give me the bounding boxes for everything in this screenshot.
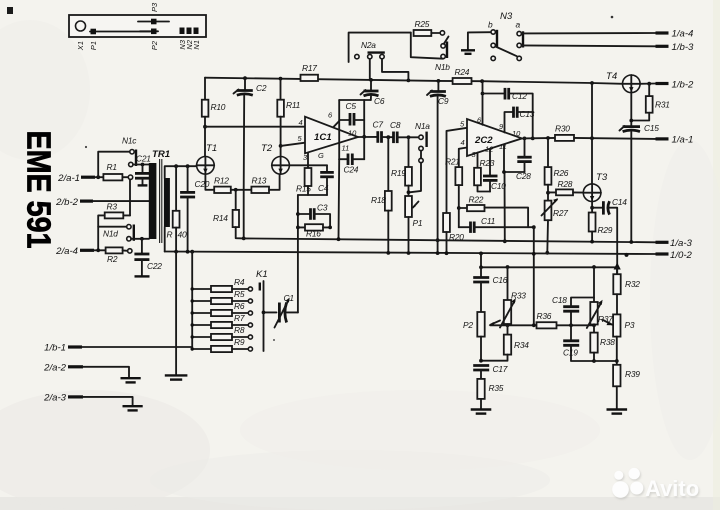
svg-text:b: b [488, 20, 493, 30]
node R40 top [174, 164, 178, 168]
wire R3 left to N1d bracket [98, 215, 105, 250]
capacitor C15 [623, 125, 640, 128]
wire C24 column to rail [338, 159, 341, 239]
node R36 left [532, 323, 536, 327]
svg-text:1/a-1: 1/a-1 [672, 135, 694, 146]
switch N1d [127, 225, 131, 229]
watermark Avito logo [612, 468, 699, 501]
node C3 left [296, 212, 300, 216]
node rail A C9 column [436, 238, 440, 242]
node C11 right [532, 225, 536, 229]
wire R25 right to contact [431, 32, 440, 34]
node P2 bottom [479, 359, 483, 363]
capacitor C17 [473, 364, 489, 367]
svg-text:C19: C19 [563, 348, 578, 358]
svg-text:C28: C28 [516, 171, 531, 181]
wire K1 to C1 [264, 311, 277, 313]
ground [607, 408, 628, 410]
pin P2 [140, 30, 158, 32]
resistor R11 [280, 79, 282, 100]
node R16 left [296, 226, 300, 230]
svg-text:2/a-2: 2/a-2 [43, 363, 67, 374]
node rail C20 [186, 250, 190, 254]
paper shading bottom strip [0, 497, 720, 510]
node R26 branch [546, 136, 550, 140]
capacitor C19 [570, 325, 572, 340]
wire C15 column to rail [630, 132, 632, 242]
capacitor C14 [592, 207, 603, 209]
svg-text:C4: C4 [318, 183, 329, 193]
capacitor C4 [326, 165, 328, 171]
svg-text:R38: R38 [600, 337, 615, 347]
resistor R18 [387, 137, 389, 191]
switch K1 selector bar [263, 281, 265, 351]
node rail C2 [243, 76, 247, 80]
P1 wiper arrow [413, 202, 419, 208]
transistor Q4 T4 [623, 75, 641, 93]
svg-text:R18: R18 [371, 195, 386, 205]
wire C2 column to bottom rail [243, 190, 245, 238]
connector box outline [69, 15, 206, 37]
wire C1 right column up to feedback [286, 311, 298, 313]
capacitor C12 [483, 93, 505, 95]
scan speck [85, 146, 87, 148]
wire N1c bypass [98, 152, 130, 178]
svg-text:R1: R1 [107, 162, 117, 172]
svg-text:R28: R28 [558, 179, 573, 189]
pin P1 [90, 31, 150, 33]
node T1 collector / pin4 branch [203, 125, 207, 129]
svg-text:10: 10 [512, 129, 521, 138]
svg-text:TR1: TR1 [152, 149, 170, 160]
resistor R24 [453, 78, 472, 84]
capacitor C6 [364, 90, 379, 93]
resistor R5 [192, 300, 211, 302]
ground [165, 374, 188, 376]
resistor R17 [301, 75, 319, 81]
capacitor C9 [437, 81, 439, 91]
resistor R28 [548, 191, 556, 193]
wire N2a bracket to R25 [349, 33, 411, 62]
input 2/a-4 lead [80, 249, 94, 252]
resistor R23 [474, 168, 481, 186]
transformer TR1 primary winding [149, 163, 157, 239]
svg-text:N3: N3 [500, 11, 513, 22]
resistor R38 [593, 325, 595, 332]
node T3 base column crossing [590, 136, 594, 140]
resistor R8 [192, 336, 211, 338]
svg-text:R32: R32 [625, 279, 640, 289]
svg-text:C3: C3 [317, 203, 328, 213]
svg-text:11: 11 [499, 142, 507, 151]
svg-text:R35: R35 [489, 383, 504, 393]
svg-text:C13: C13 [520, 109, 535, 119]
capacitor C7 [376, 131, 379, 143]
svg-text:R30: R30 [555, 124, 570, 134]
svg-text:C9: C9 [438, 96, 449, 106]
capacitor C5 [339, 119, 349, 121]
transistor T1 [197, 157, 215, 175]
capacitor C13 [512, 107, 515, 118]
resistor R12 [214, 187, 231, 193]
node C20 top [186, 164, 190, 168]
wire output 1/a-4 [521, 32, 655, 34]
potentiometer P1 [405, 196, 412, 217]
svg-text:2/a-3: 2/a-3 [43, 393, 67, 404]
wire wiper row [490, 324, 535, 326]
svg-text:C21: C21 [136, 154, 151, 164]
wire 2/a-1 to R1 [95, 176, 103, 178]
svg-text:R37: R37 [598, 314, 613, 324]
resistor R2 [106, 247, 123, 253]
wire ground column below TR1 [175, 252, 177, 374]
wire N2a right contact to rail [382, 59, 408, 81]
svg-text:R36: R36 [537, 311, 552, 321]
svg-text:2/a-4: 2/a-4 [55, 246, 78, 257]
svg-text:1/b-2: 1/b-2 [672, 80, 695, 91]
node rail C6 [369, 78, 373, 82]
potentiometer R27 [545, 201, 552, 221]
wire IC1 pin5 [281, 143, 305, 146]
node scan blob on rail [625, 253, 629, 257]
wire 2/b-2 to TR1 center tap [93, 200, 150, 202]
wire C14 down to ground node [609, 208, 617, 275]
wire T4 to output 1/b-2 [640, 83, 655, 85]
svg-text:N2a: N2a [361, 40, 376, 50]
svg-text:R9: R9 [234, 337, 245, 347]
wire pin11 column to rail [504, 172, 506, 241]
svg-text:C14: C14 [612, 197, 627, 207]
svg-text:R13: R13 [252, 176, 267, 186]
wire IC2 pin9 to C13 [505, 112, 513, 132]
wire IC2 pin3 to R23 [477, 153, 479, 168]
pin N1 square [194, 28, 199, 35]
scan speck [611, 16, 614, 19]
svg-text:R33: R33 [511, 291, 526, 301]
node R26 R28 R27 [546, 191, 550, 195]
node rail R27 [545, 251, 549, 255]
svg-text:R14: R14 [213, 213, 228, 223]
svg-text:P1: P1 [413, 218, 423, 228]
wire IC1 pin6 stub [333, 121, 339, 127]
node rail IC2 pin6 [480, 79, 484, 83]
wire T1 emitter to R12 [205, 174, 214, 190]
potentiometer P2 [477, 312, 484, 337]
wire R2 to N1d contact [123, 249, 128, 251]
ground [461, 49, 475, 51]
resistor R9 [192, 348, 211, 350]
wire 2/a-3 to ground [83, 397, 133, 405]
node C22 top [140, 237, 144, 241]
svg-text:N1d: N1d [103, 229, 118, 239]
resistor R16 [298, 226, 305, 228]
resistor R30 [555, 135, 574, 141]
svg-text:T4: T4 [606, 71, 617, 82]
wire K1 resistor column [191, 252, 193, 349]
svg-text:10: 10 [348, 129, 357, 138]
resistor R6 [192, 312, 211, 314]
capacitor C28 [517, 156, 531, 159]
wire N2a mid contact to rail [369, 59, 371, 80]
resistor R33 variable [507, 267, 509, 300]
wire C13 to output column [517, 111, 533, 113]
node T3 emitter [590, 206, 594, 210]
connector X1 circle [76, 21, 86, 31]
capacitor C2 [244, 78, 246, 90]
wire feedback column x298 [297, 195, 299, 312]
node C21 top [141, 163, 145, 167]
svg-text:R23: R23 [480, 158, 495, 168]
capacitor C8 [392, 132, 395, 144]
resistor R13 [251, 187, 269, 193]
node rail C24 [337, 237, 341, 241]
svg-text:1/a-3: 1/a-3 [670, 238, 693, 249]
node IC2 output C28 [523, 137, 527, 141]
ground [471, 408, 492, 410]
node R14 top [234, 188, 238, 192]
wire C6 bottom to box top [370, 96, 372, 100]
node C18 C19 [569, 323, 573, 327]
svg-text:T3: T3 [596, 172, 608, 183]
node R38 bottom [592, 359, 596, 363]
svg-text:1/a-4: 1/a-4 [672, 29, 694, 40]
svg-text:N1b: N1b [435, 62, 450, 72]
node rail C9 [436, 251, 440, 255]
node R22 left [457, 206, 461, 210]
svg-text:R29: R29 [598, 225, 613, 235]
wire feedback box bottom [339, 158, 347, 160]
wire R12 to R13 [231, 189, 252, 191]
node R19 top [407, 135, 411, 139]
switch N3 arm [496, 47, 517, 57]
capacitor C22 [141, 239, 143, 253]
capacitor C3 [298, 213, 310, 215]
node R16 right [328, 226, 332, 230]
switch N1a [419, 135, 423, 139]
resistor R32 [613, 274, 620, 294]
svg-text:T2: T2 [261, 143, 273, 154]
resistor R10 [204, 78, 206, 100]
svg-text:C18: C18 [552, 295, 567, 305]
svg-text:R2: R2 [107, 254, 118, 264]
wire T4 emitter column [630, 93, 632, 126]
transformer TR1 secondary winding [164, 178, 170, 227]
resistor R29 [589, 213, 596, 232]
svg-text:N1: N1 [192, 40, 201, 50]
node junction 2/a-4 [96, 248, 100, 252]
node rail T3 base [590, 81, 594, 85]
node R18 top [386, 135, 390, 139]
wire N1b bypass [411, 33, 443, 59]
svg-text:R5: R5 [234, 289, 245, 299]
input 2/a-3 lead [68, 395, 83, 398]
wire N1d top contact [98, 226, 127, 228]
svg-text:R8: R8 [234, 325, 245, 335]
svg-text:C2: C2 [256, 83, 267, 93]
node R37 R38 wiper row [592, 323, 596, 327]
wire N1c contact to R3 [129, 179, 131, 215]
switch N1c [130, 150, 134, 154]
wire IC1 pin4 [205, 126, 305, 128]
svg-text:11: 11 [342, 144, 350, 153]
svg-text:R16: R16 [306, 229, 321, 239]
resistor R34 [507, 325, 509, 334]
svg-text:R25: R25 [415, 19, 430, 29]
scan speck top-left [7, 7, 13, 14]
ground [121, 377, 141, 379]
node rail K1 column [190, 250, 194, 254]
wire C9 column to rail [437, 97, 439, 254]
svg-text:1/b-1: 1/b-1 [44, 343, 66, 354]
resistor R22 [459, 207, 467, 209]
svg-text:4: 4 [461, 138, 465, 147]
node rail pin11 column [503, 239, 507, 243]
wire IC2 pin11 to C28 [504, 145, 525, 172]
pin N2 square [187, 28, 192, 35]
input 2/a-2 lead [68, 365, 83, 368]
resistor R26 [547, 138, 549, 167]
svg-text:N1c: N1c [122, 136, 137, 146]
node P3 R39 [615, 359, 619, 363]
wire output 1/b-3 [521, 44, 655, 47]
svg-text:P3: P3 [625, 320, 635, 330]
svg-text:R11: R11 [286, 100, 300, 110]
capacitor C20 [187, 166, 189, 191]
wire R1 to N1c contact [122, 176, 128, 178]
svg-text:P2: P2 [150, 40, 159, 50]
svg-text:R: R [167, 230, 173, 240]
svg-text:R12: R12 [214, 176, 229, 186]
resistor R39 [613, 365, 620, 387]
svg-text:C22: C22 [147, 261, 162, 271]
wire T3 emitter [591, 202, 593, 213]
wire N1c to TR1 primary top [133, 164, 149, 166]
wire feedback box top [339, 99, 371, 101]
svg-text:C17: C17 [493, 364, 508, 374]
wire R22 right to column [485, 208, 529, 228]
node rail R18 [386, 251, 390, 255]
node rail C15 [629, 240, 633, 244]
wire C8 to N1a [397, 136, 419, 138]
op-amp U1 IC1 [305, 117, 358, 154]
svg-text:C24: C24 [344, 165, 359, 175]
svg-text:C15: C15 [644, 123, 659, 133]
node rail R36 column [532, 252, 536, 256]
node loop C16 [479, 265, 483, 269]
node rail C9 [437, 79, 441, 83]
capacitor C1 variable [278, 303, 281, 323]
node IC2 output C12 [531, 137, 535, 141]
wire IC2 output to R30 [522, 137, 555, 140]
svg-text:C8: C8 [390, 120, 401, 130]
svg-text:R31: R31 [655, 100, 670, 110]
capacitor C21 [142, 165, 144, 173]
resistor R7 [192, 324, 211, 326]
svg-text:N1a: N1a [415, 121, 430, 131]
node R31 top [647, 82, 651, 86]
resistor R40 [175, 166, 177, 211]
pin P3 [138, 21, 169, 23]
resistor R3 [105, 212, 124, 218]
wire C6 column [370, 80, 372, 90]
svg-text:R27: R27 [553, 208, 568, 218]
wire C11 column down to R36 [533, 227, 535, 325]
resistor R31 [648, 84, 650, 96]
op-amp U2 IC2 [467, 119, 522, 156]
svg-text:C1: C1 [284, 293, 294, 303]
wire IC1 pin3 [307, 153, 309, 166]
node rail R29 [590, 240, 594, 244]
svg-text:K1: K1 [256, 269, 268, 280]
wire N1d mid contact to primary bottom [131, 238, 149, 240]
resistor R21 [455, 167, 462, 185]
wire feedback box right [363, 100, 365, 159]
svg-text:P1: P1 [89, 41, 98, 50]
svg-text:C6: C6 [374, 96, 385, 106]
wire bottom rail 1/a-3 [244, 238, 656, 242]
svg-text:P3: P3 [150, 2, 159, 12]
potentiometer P3 [613, 314, 620, 336]
node rail N2a [407, 79, 411, 83]
wire C12 to output column [509, 94, 533, 139]
svg-text:a: a [516, 20, 521, 30]
wire C19 R38 to R39 column [594, 360, 617, 362]
svg-text:C7: C7 [373, 120, 384, 130]
svg-text:R22: R22 [469, 195, 484, 205]
input 1/b-1 lead [68, 345, 82, 348]
loop arrowhead [614, 263, 621, 270]
wire IC2 pin5 / R20 column [447, 128, 468, 213]
svg-text:T1: T1 [206, 143, 217, 154]
node rail R11 [279, 77, 283, 81]
switch N2a [355, 54, 359, 58]
resistor R20 [443, 213, 450, 232]
svg-text:R24: R24 [455, 67, 470, 77]
wire N1a bottom contact down [410, 163, 422, 193]
transformer TR1 core [159, 159, 161, 243]
scan speck [273, 339, 275, 341]
resistor R35 [477, 379, 484, 399]
wire R3 right lead [123, 214, 130, 216]
svg-text:R26: R26 [554, 168, 569, 178]
wire IC2 pin4 / R21 column [459, 148, 467, 168]
node pin11 C28 [502, 170, 506, 174]
svg-text:R10: R10 [211, 102, 226, 112]
svg-text:EME 591: EME 591 [21, 131, 58, 249]
wire R32 column [616, 267, 618, 274]
wire IC2 pin12 to C10 [489, 149, 491, 175]
svg-text:1C1: 1C1 [314, 132, 332, 143]
svg-text:G: G [318, 151, 324, 160]
wire tone network loop [481, 253, 617, 267]
paper shading right edge [713, 0, 720, 510]
svg-text:1/0-2: 1/0-2 [670, 250, 693, 261]
wire secondary bottom to rail [164, 227, 166, 252]
resistor R36 [537, 322, 557, 328]
svg-text:2/b-2: 2/b-2 [55, 197, 79, 208]
ground [123, 405, 143, 407]
wire ground riser top [468, 32, 491, 49]
resistor R37 variable [593, 267, 595, 302]
P2 wiper arrow [490, 321, 500, 325]
node T2 collector / pin5 branch [279, 144, 283, 148]
svg-text:X1: X1 [76, 41, 85, 51]
resistor R25 [414, 30, 432, 36]
node loop R33 [506, 265, 510, 269]
node R19 P1 junction [407, 190, 411, 194]
resistor R4 [192, 288, 211, 290]
svg-text:1/b-3: 1/b-3 [672, 42, 695, 53]
